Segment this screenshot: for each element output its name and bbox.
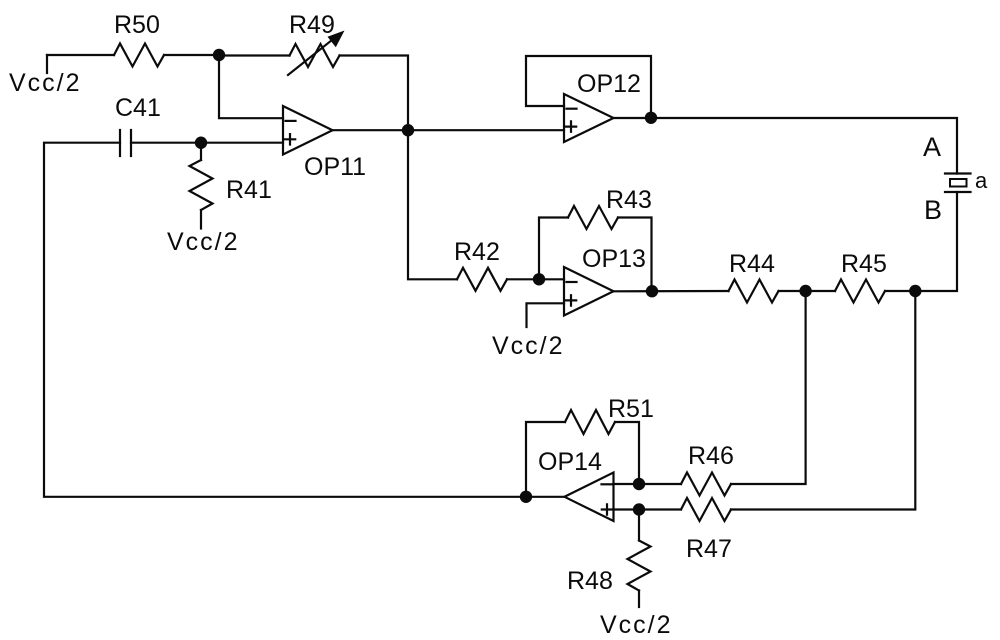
wire OP11 output to OP12 non-inverting input [333,129,565,131]
resistor R51 [565,395,654,434]
svg-text:C41: C41 [115,94,161,122]
node junction R50/R49/OP11 inverting [213,49,225,61]
svg-text:OP12: OP12 [577,70,641,98]
svg-text:R49: R49 [289,11,335,39]
piezoelectric element a [945,168,988,193]
node junction OP12 output [645,112,657,124]
svg-text:OP13: OP13 [582,245,646,273]
svg-text:Vcc/2: Vcc/2 [167,228,240,256]
resistor R49 (variable) [288,11,345,75]
wire R44/R45 node down to R46 [731,291,806,484]
power Vcc/2 (top-left source) [9,55,82,97]
wire element a to R45 node [915,192,957,291]
node junction R45/element/R47 [909,285,921,297]
wire R44 to node [779,290,806,292]
resistor R42 [454,238,507,291]
node junction OP14 output [520,491,532,503]
resistor R44 [729,250,779,303]
svg-text:a: a [975,168,988,193]
resistor R47 [681,498,732,563]
wire OP13 output to R44 [614,290,729,292]
wire R43 feedback loop [539,218,652,292]
resistor R43 [568,186,652,229]
resistor R45 [835,250,887,303]
capacitor C41 [115,94,161,156]
wire node to R45 [806,290,835,292]
svg-text:R51: R51 [608,395,654,423]
svg-text:R47: R47 [686,535,732,563]
wire Vcc/2 stub to R50 [47,54,114,56]
op-amp OP13 [564,245,646,316]
svg-text:OP14: OP14 [538,448,602,476]
svg-text:Vcc/2: Vcc/2 [600,611,673,639]
wire OP12 output to element a [614,118,958,174]
svg-text:Vcc/2: Vcc/2 [9,69,82,97]
resistor R41 [190,143,272,229]
node junction OP14-/R51/R46 [633,478,645,490]
resistor R48 [567,510,651,608]
resistor R46 [681,442,734,496]
wire R45 to node [885,290,915,292]
node junction OP11 out / R49 branch [402,124,414,136]
svg-text:B: B [924,195,942,225]
svg-text:R50: R50 [114,11,160,39]
node junction C41/R41/OP11+ [195,137,207,149]
svg-text:OP11: OP11 [304,153,366,181]
node junction OP14+/R47/R48 [633,503,645,515]
wire R45 node down to R47 [731,291,915,510]
node junction R44/R45/R46 [799,285,811,297]
wire R49 to vertical x408 [340,56,409,131]
svg-text:Vcc/2: Vcc/2 [492,332,565,360]
op-amp OP11 [283,106,366,181]
wire R46 to OP14 inverting input [614,483,682,485]
svg-text:R48: R48 [567,567,613,595]
svg-text:R44: R44 [729,250,775,278]
op-amp OP12 [564,70,641,142]
svg-text:R43: R43 [606,186,652,214]
wire C41 to node3 to OP11 non-inverting input [131,142,283,144]
wire OP12 feedback loop [526,56,651,118]
wire R42 to OP13 inverting input [507,278,564,280]
wire R50 to node1 [164,54,219,56]
svg-text:R46: R46 [688,442,734,470]
wire OP14 output to left loop and back to C41 [44,143,565,497]
svg-text:R41: R41 [226,176,272,204]
wire R51 feedback loop [526,422,639,497]
svg-text:R42: R42 [454,238,500,266]
svg-text:A: A [923,132,941,162]
wire node1 down to OP11 inverting input [219,55,283,118]
wire node1 to R49 [219,54,290,56]
svg-text:R45: R45 [841,250,887,278]
wire vertical x408 down to R42 line [408,130,457,279]
node junction OP13 output [646,285,658,297]
wire R47 to OP14 non-inverting input [614,508,682,510]
wire OP13 non-inverting input to Vcc/2 [527,303,565,327]
op-amp OP14 (points left) [538,448,614,521]
node junction R42/R43/OP13- [533,273,545,285]
resistor R50 [114,11,164,67]
